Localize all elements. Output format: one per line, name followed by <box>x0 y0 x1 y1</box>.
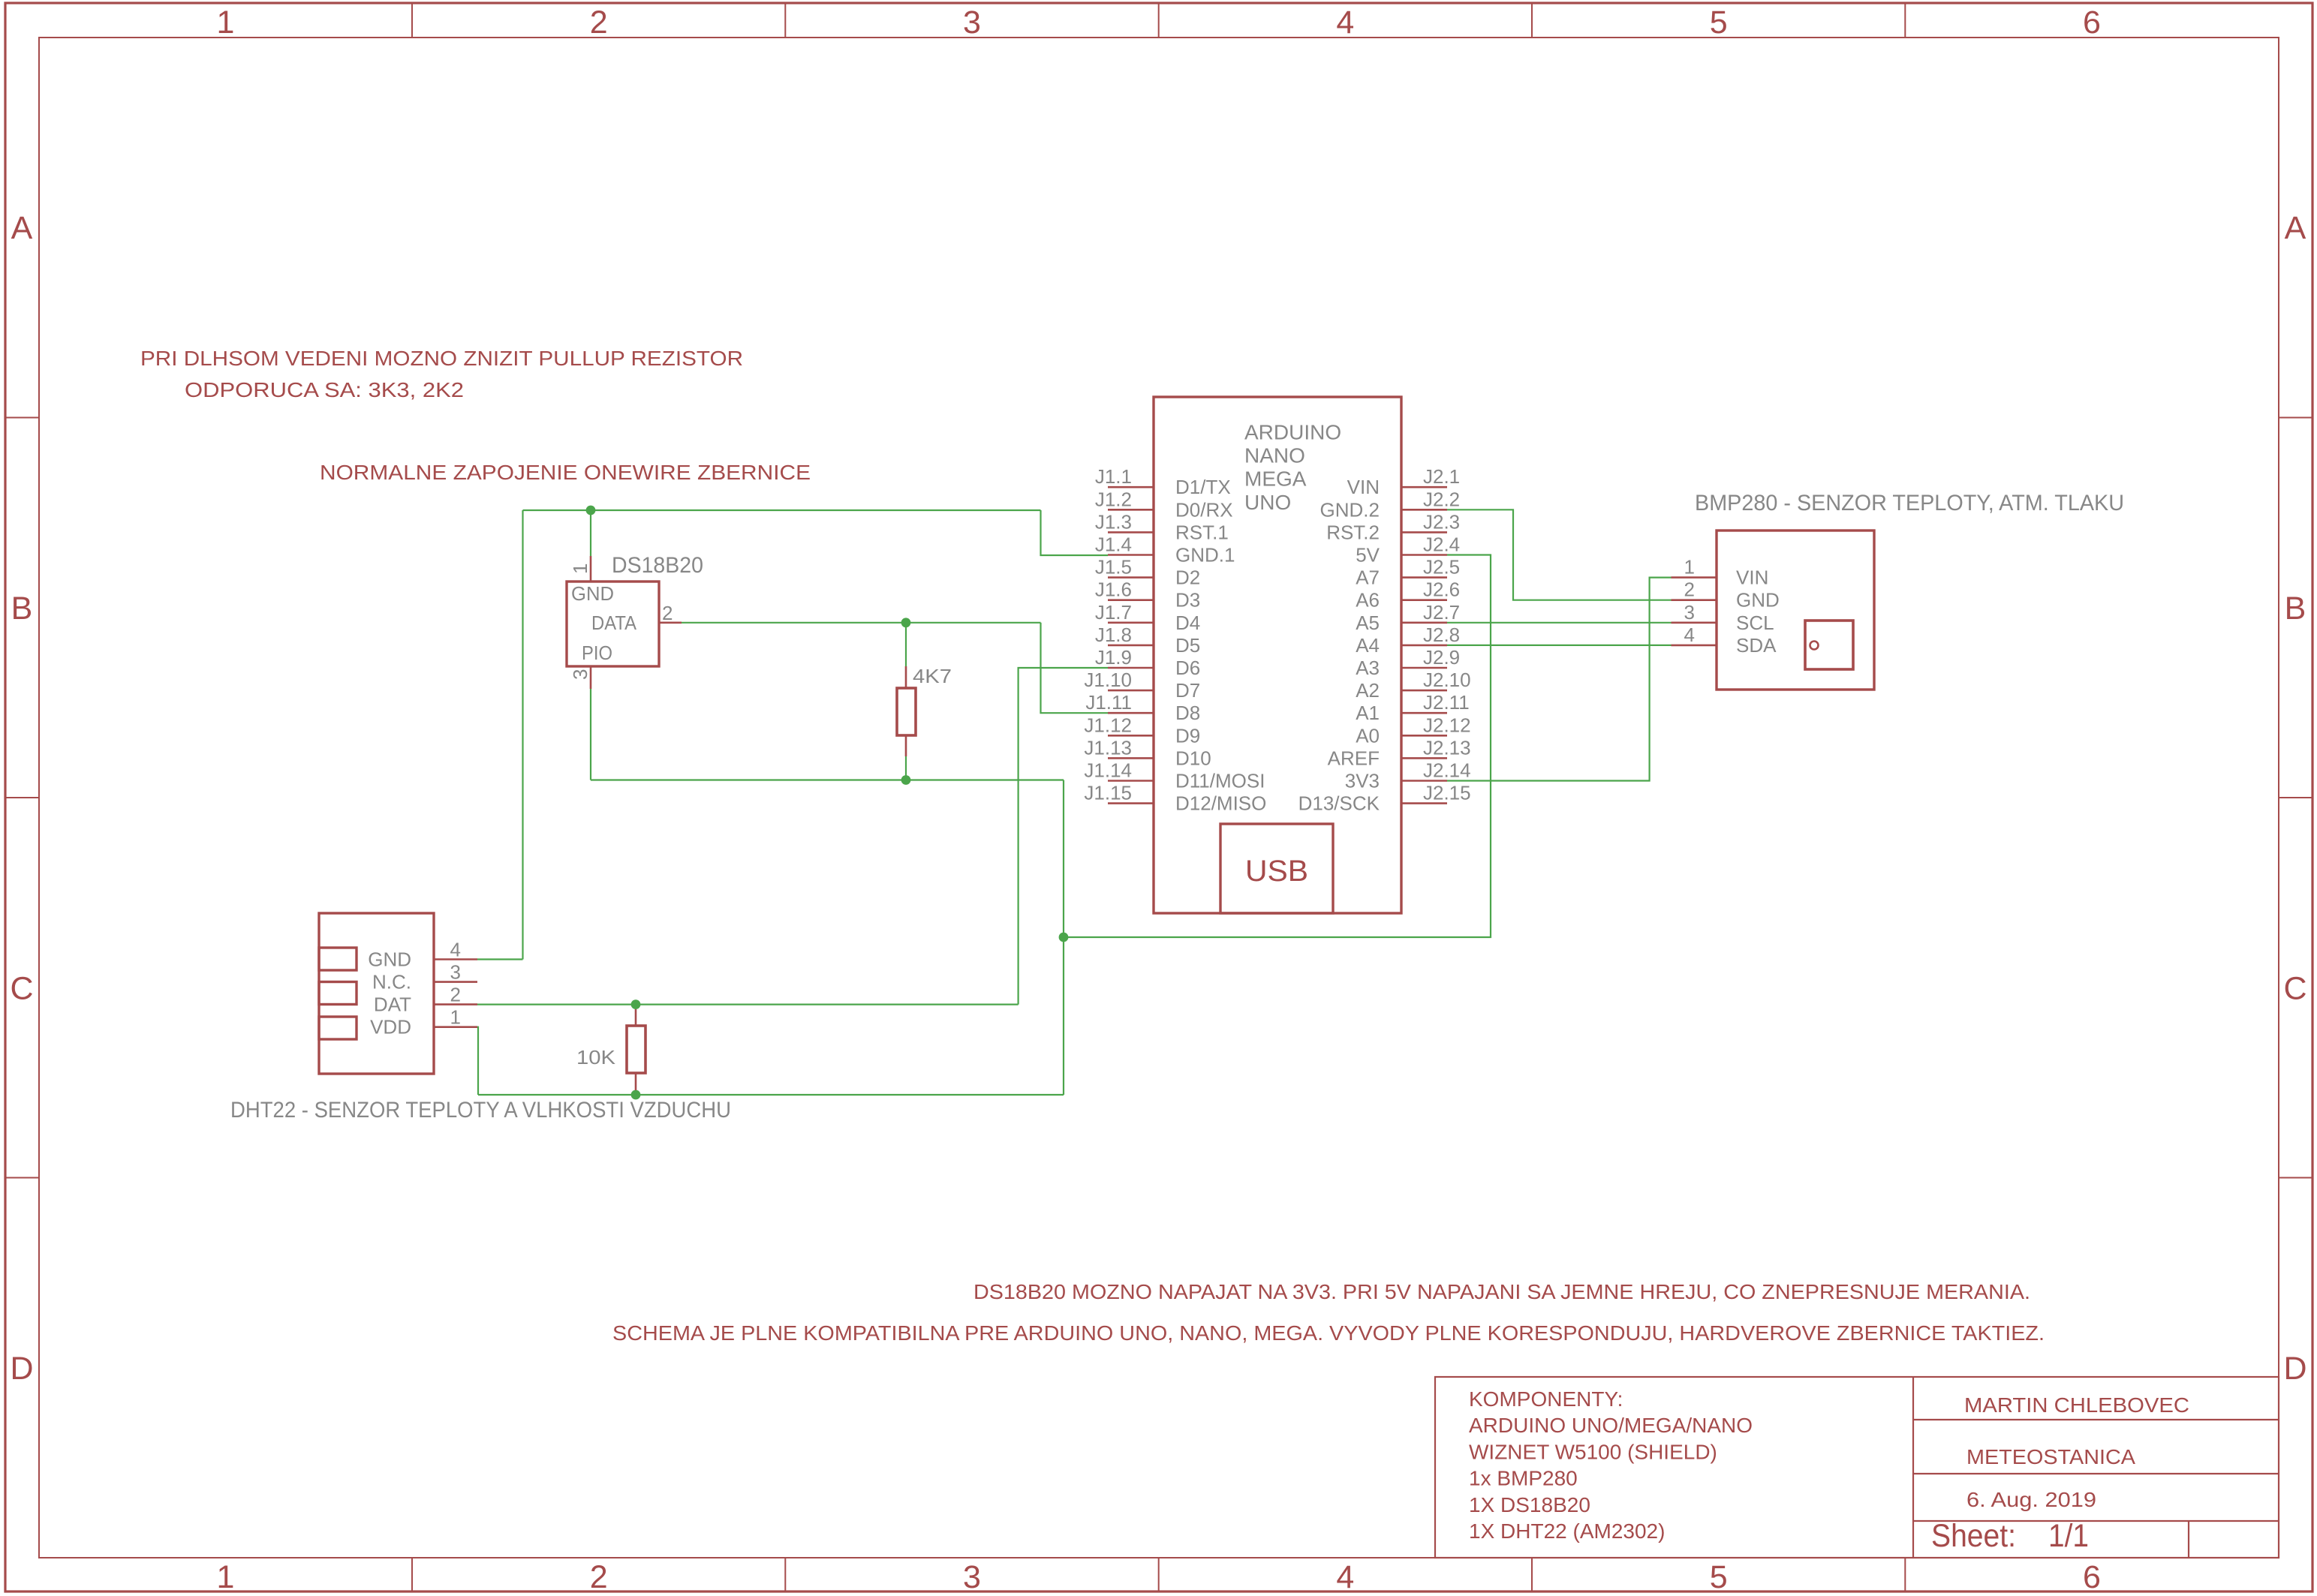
svg-text:J1.12: J1.12 <box>1084 714 1132 736</box>
arduino title text <box>1244 421 1341 514</box>
svg-text:A: A <box>2285 210 2306 246</box>
svg-text:RST.1: RST.1 <box>1175 521 1229 543</box>
svg-text:A1: A1 <box>1356 702 1380 724</box>
wire net GND corner to J1.4 <box>1041 510 1109 555</box>
svg-text:SCL: SCL <box>1736 612 1774 634</box>
svg-text:D3: D3 <box>1175 589 1200 612</box>
svg-text:A6: A6 <box>1356 589 1380 612</box>
svg-text:1: 1 <box>217 5 235 41</box>
svg-text:A2: A2 <box>1356 679 1380 702</box>
wire 4K7 bottom connection <box>905 756 907 780</box>
wire net GND2 J2.2 to BMP GND <box>1447 509 1672 600</box>
junction GND at DS18B20 pin1 drop <box>586 506 596 515</box>
svg-text:J2.9: J2.9 <box>1423 646 1460 669</box>
svg-text:J2.1: J2.1 <box>1423 465 1460 488</box>
arduino USB box <box>1220 824 1333 913</box>
svg-text:ARDUINO UNO/MEGA/NANO: ARDUINO UNO/MEGA/NANO <box>1469 1414 1753 1437</box>
svg-text:NANO: NANO <box>1244 444 1305 467</box>
svg-text:J2.14: J2.14 <box>1423 759 1471 782</box>
wire net 5V vertical mid <box>1063 780 1064 1096</box>
wire net DAT from DHT pin2 <box>477 1003 1019 1005</box>
svg-text:J1.4: J1.4 <box>1095 534 1132 556</box>
svg-text:ODPORUCA SA: 3K3, 2K2: ODPORUCA SA: 3K3, 2K2 <box>185 378 464 401</box>
svg-text:5: 5 <box>1710 1559 1728 1595</box>
svg-text:D4: D4 <box>1175 612 1200 634</box>
svg-text:D12/MISO: D12/MISO <box>1175 792 1266 815</box>
DS18B20 pin 1 stub <box>590 556 592 582</box>
svg-text:USB: USB <box>1245 855 1308 888</box>
svg-text:GND.2: GND.2 <box>1320 498 1380 521</box>
svg-text:4: 4 <box>1336 5 1354 41</box>
svg-text:PIO: PIO <box>582 642 612 664</box>
svg-text:Sheet:: Sheet: <box>1931 1518 2016 1554</box>
DHT22 pin numbers <box>450 939 461 1029</box>
svg-text:WIZNET W5100 (SHIELD): WIZNET W5100 (SHIELD) <box>1469 1440 1717 1463</box>
svg-text:MEGA: MEGA <box>1244 467 1307 491</box>
svg-text:J2.7: J2.7 <box>1423 601 1460 624</box>
svg-text:3: 3 <box>569 669 591 680</box>
svg-text:B: B <box>11 591 33 627</box>
svg-text:5: 5 <box>1710 5 1728 41</box>
wire net GND drop to DS18B20 pin1 <box>590 510 591 556</box>
svg-text:J1.14: J1.14 <box>1084 759 1132 782</box>
svg-text:VIN: VIN <box>1347 476 1380 498</box>
svg-text:A7: A7 <box>1356 567 1380 589</box>
junction ONEWIRE at 4K7 top <box>901 618 911 627</box>
wire 10K bottom connection <box>635 1090 636 1095</box>
svg-text:3V3: 3V3 <box>1345 770 1380 792</box>
DS18B20 pin 2 stub <box>659 621 682 624</box>
junction 5V branch <box>1059 933 1069 942</box>
svg-text:J2.15: J2.15 <box>1423 782 1471 804</box>
svg-text:SCHEMA JE PLNE KOMPATIBILNA PR: SCHEMA JE PLNE KOMPATIBILNA PRE ARDUINO … <box>612 1321 2045 1345</box>
svg-text:3: 3 <box>963 5 981 41</box>
wire 10K top connection <box>635 1005 636 1009</box>
title block sheet cell divider <box>2188 1521 2189 1558</box>
arduino J2 pin labels <box>1423 465 1471 804</box>
BMP280 inner chip square <box>1805 621 1853 669</box>
BMP280 pin stubs <box>1672 578 1717 645</box>
svg-text:6: 6 <box>2083 1559 2101 1595</box>
title block outline <box>1435 1377 2279 1558</box>
svg-text:D9: D9 <box>1175 724 1200 747</box>
title block vertical divider <box>1912 1377 1914 1558</box>
svg-text:A: A <box>11 210 33 246</box>
svg-text:J1.11: J1.11 <box>1085 691 1132 714</box>
arduino J1 pin stubs <box>1108 487 1154 803</box>
svg-text:PRI DLHSOM VEDENI MOZNO ZNIZIT: PRI DLHSOM VEDENI MOZNO ZNIZIT PULLUP RE… <box>140 347 743 370</box>
svg-text:J1.8: J1.8 <box>1095 624 1132 646</box>
svg-text:SDA: SDA <box>1736 634 1777 657</box>
svg-text:1: 1 <box>217 1559 235 1595</box>
svg-text:J1.10: J1.10 <box>1084 669 1132 691</box>
DS18B20 pin 3 stub <box>590 666 592 689</box>
svg-text:6. Aug. 2019: 6. Aug. 2019 <box>1966 1488 2096 1511</box>
junction 5V at 4K7 bottom <box>901 775 911 785</box>
svg-text:J2.11: J2.11 <box>1423 691 1470 714</box>
svg-text:ARDUINO: ARDUINO <box>1244 421 1341 444</box>
svg-text:GND: GND <box>1736 589 1780 612</box>
svg-text:N.C.: N.C. <box>372 971 411 993</box>
svg-text:3: 3 <box>450 961 461 984</box>
svg-text:4K7: 4K7 <box>913 665 952 687</box>
wire net ONEWIRE from DS18B20 DATA <box>682 622 1041 624</box>
junction DAT at 10K top <box>631 999 641 1009</box>
wire 4K7 top connection <box>905 623 907 666</box>
svg-text:4: 4 <box>1336 1559 1354 1595</box>
svg-text:RST.2: RST.2 <box>1326 521 1380 543</box>
svg-text:D6: D6 <box>1175 657 1200 679</box>
arduino connector U1 box <box>1154 397 1401 913</box>
svg-text:D11/MOSI: D11/MOSI <box>1175 770 1265 792</box>
wire net ONEWIRE corner to J1.11 <box>1041 623 1109 713</box>
svg-text:2: 2 <box>662 602 673 624</box>
arduino J2 pin stubs <box>1401 487 1447 803</box>
svg-text:2: 2 <box>590 1559 608 1595</box>
svg-text:GND: GND <box>571 582 614 605</box>
svg-text:J1.7: J1.7 <box>1095 601 1132 624</box>
svg-text:D1/TX: D1/TX <box>1175 476 1231 498</box>
BMP280 pin name labels <box>1736 567 1780 657</box>
DHT22 package notches <box>319 948 357 1039</box>
wire net GND stub to DHT pin4 <box>477 958 523 960</box>
svg-text:3: 3 <box>963 1559 981 1595</box>
svg-text:5V: 5V <box>1356 544 1380 567</box>
svg-text:METEOSTANICA: METEOSTANICA <box>1966 1445 2135 1468</box>
junction 5V at 10K bottom <box>631 1090 641 1100</box>
sensor BMP280 box <box>1717 530 1874 690</box>
svg-text:J1.3: J1.3 <box>1095 510 1132 533</box>
svg-text:J1.13: J1.13 <box>1084 736 1132 759</box>
wire net GND left vertical to DHT <box>522 510 523 960</box>
svg-text:A5: A5 <box>1356 612 1380 634</box>
svg-text:1: 1 <box>450 1006 461 1029</box>
frame row dividers left band <box>5 418 39 1178</box>
svg-text:J1.9: J1.9 <box>1095 646 1132 669</box>
title block components list <box>1469 1387 1753 1543</box>
svg-text:J1.15: J1.15 <box>1084 782 1132 804</box>
title block row dividers <box>1913 1420 2279 1521</box>
svg-text:J2.4: J2.4 <box>1423 534 1460 556</box>
svg-text:D10: D10 <box>1175 747 1211 769</box>
svg-text:DS18B20: DS18B20 <box>612 553 703 578</box>
svg-text:GND.1: GND.1 <box>1175 544 1235 567</box>
svg-text:DS18B20 MOZNO NAPAJAT NA 3V3.: DS18B20 MOZNO NAPAJAT NA 3V3. PRI 5V NAP… <box>973 1280 2030 1303</box>
sensor DHT22 box <box>319 913 434 1074</box>
wire net GND top horizontal <box>523 509 1041 511</box>
svg-text:VDD: VDD <box>370 1016 411 1038</box>
svg-text:4: 4 <box>450 939 461 961</box>
svg-text:J1.1: J1.1 <box>1095 465 1132 488</box>
svg-text:A3: A3 <box>1356 657 1380 679</box>
BMP280 pin numbers <box>1684 556 1695 646</box>
svg-text:1X DHT22 (AM2302): 1X DHT22 (AM2302) <box>1469 1519 1665 1543</box>
svg-text:AREF: AREF <box>1328 747 1380 769</box>
svg-text:DHT22 - SENZOR TEPLOTY A VLHKO: DHT22 - SENZOR TEPLOTY A VLHKOSTI VZDUCH… <box>230 1098 731 1123</box>
svg-text:6: 6 <box>2083 5 2101 41</box>
frame column dividers bottom band <box>412 1558 1905 1591</box>
svg-text:D5: D5 <box>1175 634 1200 657</box>
svg-text:J2.12: J2.12 <box>1423 714 1471 736</box>
svg-text:VIN: VIN <box>1736 567 1768 589</box>
svg-text:D2: D2 <box>1175 567 1200 589</box>
svg-text:MARTIN CHLEBOVEC: MARTIN CHLEBOVEC <box>1964 1393 2189 1417</box>
svg-text:2: 2 <box>590 5 608 41</box>
svg-text:J1.2: J1.2 <box>1095 488 1132 510</box>
svg-text:1: 1 <box>569 564 591 574</box>
svg-text:1x BMP280: 1x BMP280 <box>1469 1467 1578 1490</box>
svg-text:J2.2: J2.2 <box>1423 488 1460 510</box>
svg-text:J1.6: J1.6 <box>1095 579 1132 601</box>
svg-text:D7: D7 <box>1175 679 1200 702</box>
svg-text:UNO: UNO <box>1244 491 1291 514</box>
wire net 3V3 J2.14 to BMP VIN <box>1447 578 1672 781</box>
svg-text:J2.8: J2.8 <box>1423 624 1460 646</box>
wire net DAT up to J1.9 <box>1019 668 1108 1005</box>
resistor 10K body <box>627 1026 645 1073</box>
frame row dividers right band <box>2279 418 2312 1178</box>
wire net 5V horizontal row <box>591 779 1064 780</box>
svg-text:B: B <box>2285 591 2306 627</box>
wire net 5V branch to J2.4 <box>1064 555 1491 938</box>
svg-text:2: 2 <box>1684 579 1695 601</box>
svg-text:A4: A4 <box>1356 634 1380 657</box>
svg-text:NORMALNE ZAPOJENIE ONEWIRE ZBE: NORMALNE ZAPOJENIE ONEWIRE ZBERNICE <box>320 461 811 484</box>
svg-text:C: C <box>2283 970 2306 1006</box>
resistor 4K7 leads <box>905 666 907 756</box>
wire net 5V bottom row <box>478 1094 1064 1096</box>
svg-text:J2.13: J2.13 <box>1423 736 1471 759</box>
svg-text:D: D <box>10 1351 33 1387</box>
resistor 4K7 body <box>897 688 916 735</box>
svg-text:J2.6: J2.6 <box>1423 579 1460 601</box>
svg-text:D13/SCK: D13/SCK <box>1298 792 1380 815</box>
arduino right pin names <box>1298 476 1380 814</box>
svg-text:1/1: 1/1 <box>2048 1518 2089 1554</box>
DHT22 pin name labels <box>368 948 411 1038</box>
svg-text:A0: A0 <box>1356 724 1380 747</box>
svg-text:J2.10: J2.10 <box>1423 669 1471 691</box>
sensor DS18B20 box <box>567 582 659 666</box>
svg-text:GND: GND <box>368 948 411 971</box>
svg-text:C: C <box>10 970 33 1006</box>
wire net 5V up to DHT VDD <box>477 1027 478 1095</box>
svg-text:D8: D8 <box>1175 702 1200 724</box>
svg-text:J1.5: J1.5 <box>1095 556 1132 579</box>
svg-text:4: 4 <box>1684 624 1695 646</box>
svg-text:2: 2 <box>450 984 461 1006</box>
svg-text:BMP280 - SENZOR TEPLOTY, ATM.: BMP280 - SENZOR TEPLOTY, ATM. TLAKU <box>1695 491 2124 515</box>
frame column dividers top band <box>412 3 1905 38</box>
wire net 5V from DS18B20 pin3 down <box>590 689 591 780</box>
svg-text:J2.5: J2.5 <box>1423 556 1460 579</box>
svg-text:3: 3 <box>1684 601 1695 624</box>
svg-text:1X DS18B20: 1X DS18B20 <box>1469 1493 1590 1516</box>
svg-text:KOMPONENTY:: KOMPONENTY: <box>1469 1387 1623 1411</box>
BMP280 chip pin-1 ring <box>1810 642 1819 650</box>
wire net SDA J2.8 to BMP SDA <box>1447 645 1672 646</box>
svg-text:DATA: DATA <box>591 612 637 634</box>
arduino J1 pin labels <box>1084 465 1132 804</box>
svg-text:D: D <box>2283 1351 2306 1387</box>
resistor 10K leads <box>635 1009 637 1090</box>
DHT22 pin stubs <box>434 960 477 1027</box>
wire net SCL J2.7 to BMP SCL <box>1447 622 1672 624</box>
svg-text:D0/RX: D0/RX <box>1175 498 1233 521</box>
arduino left pin names <box>1175 476 1266 814</box>
svg-text:J2.3: J2.3 <box>1423 510 1460 533</box>
svg-text:10K: 10K <box>576 1046 616 1069</box>
svg-text:DAT: DAT <box>374 993 411 1016</box>
svg-text:1: 1 <box>1684 556 1695 579</box>
